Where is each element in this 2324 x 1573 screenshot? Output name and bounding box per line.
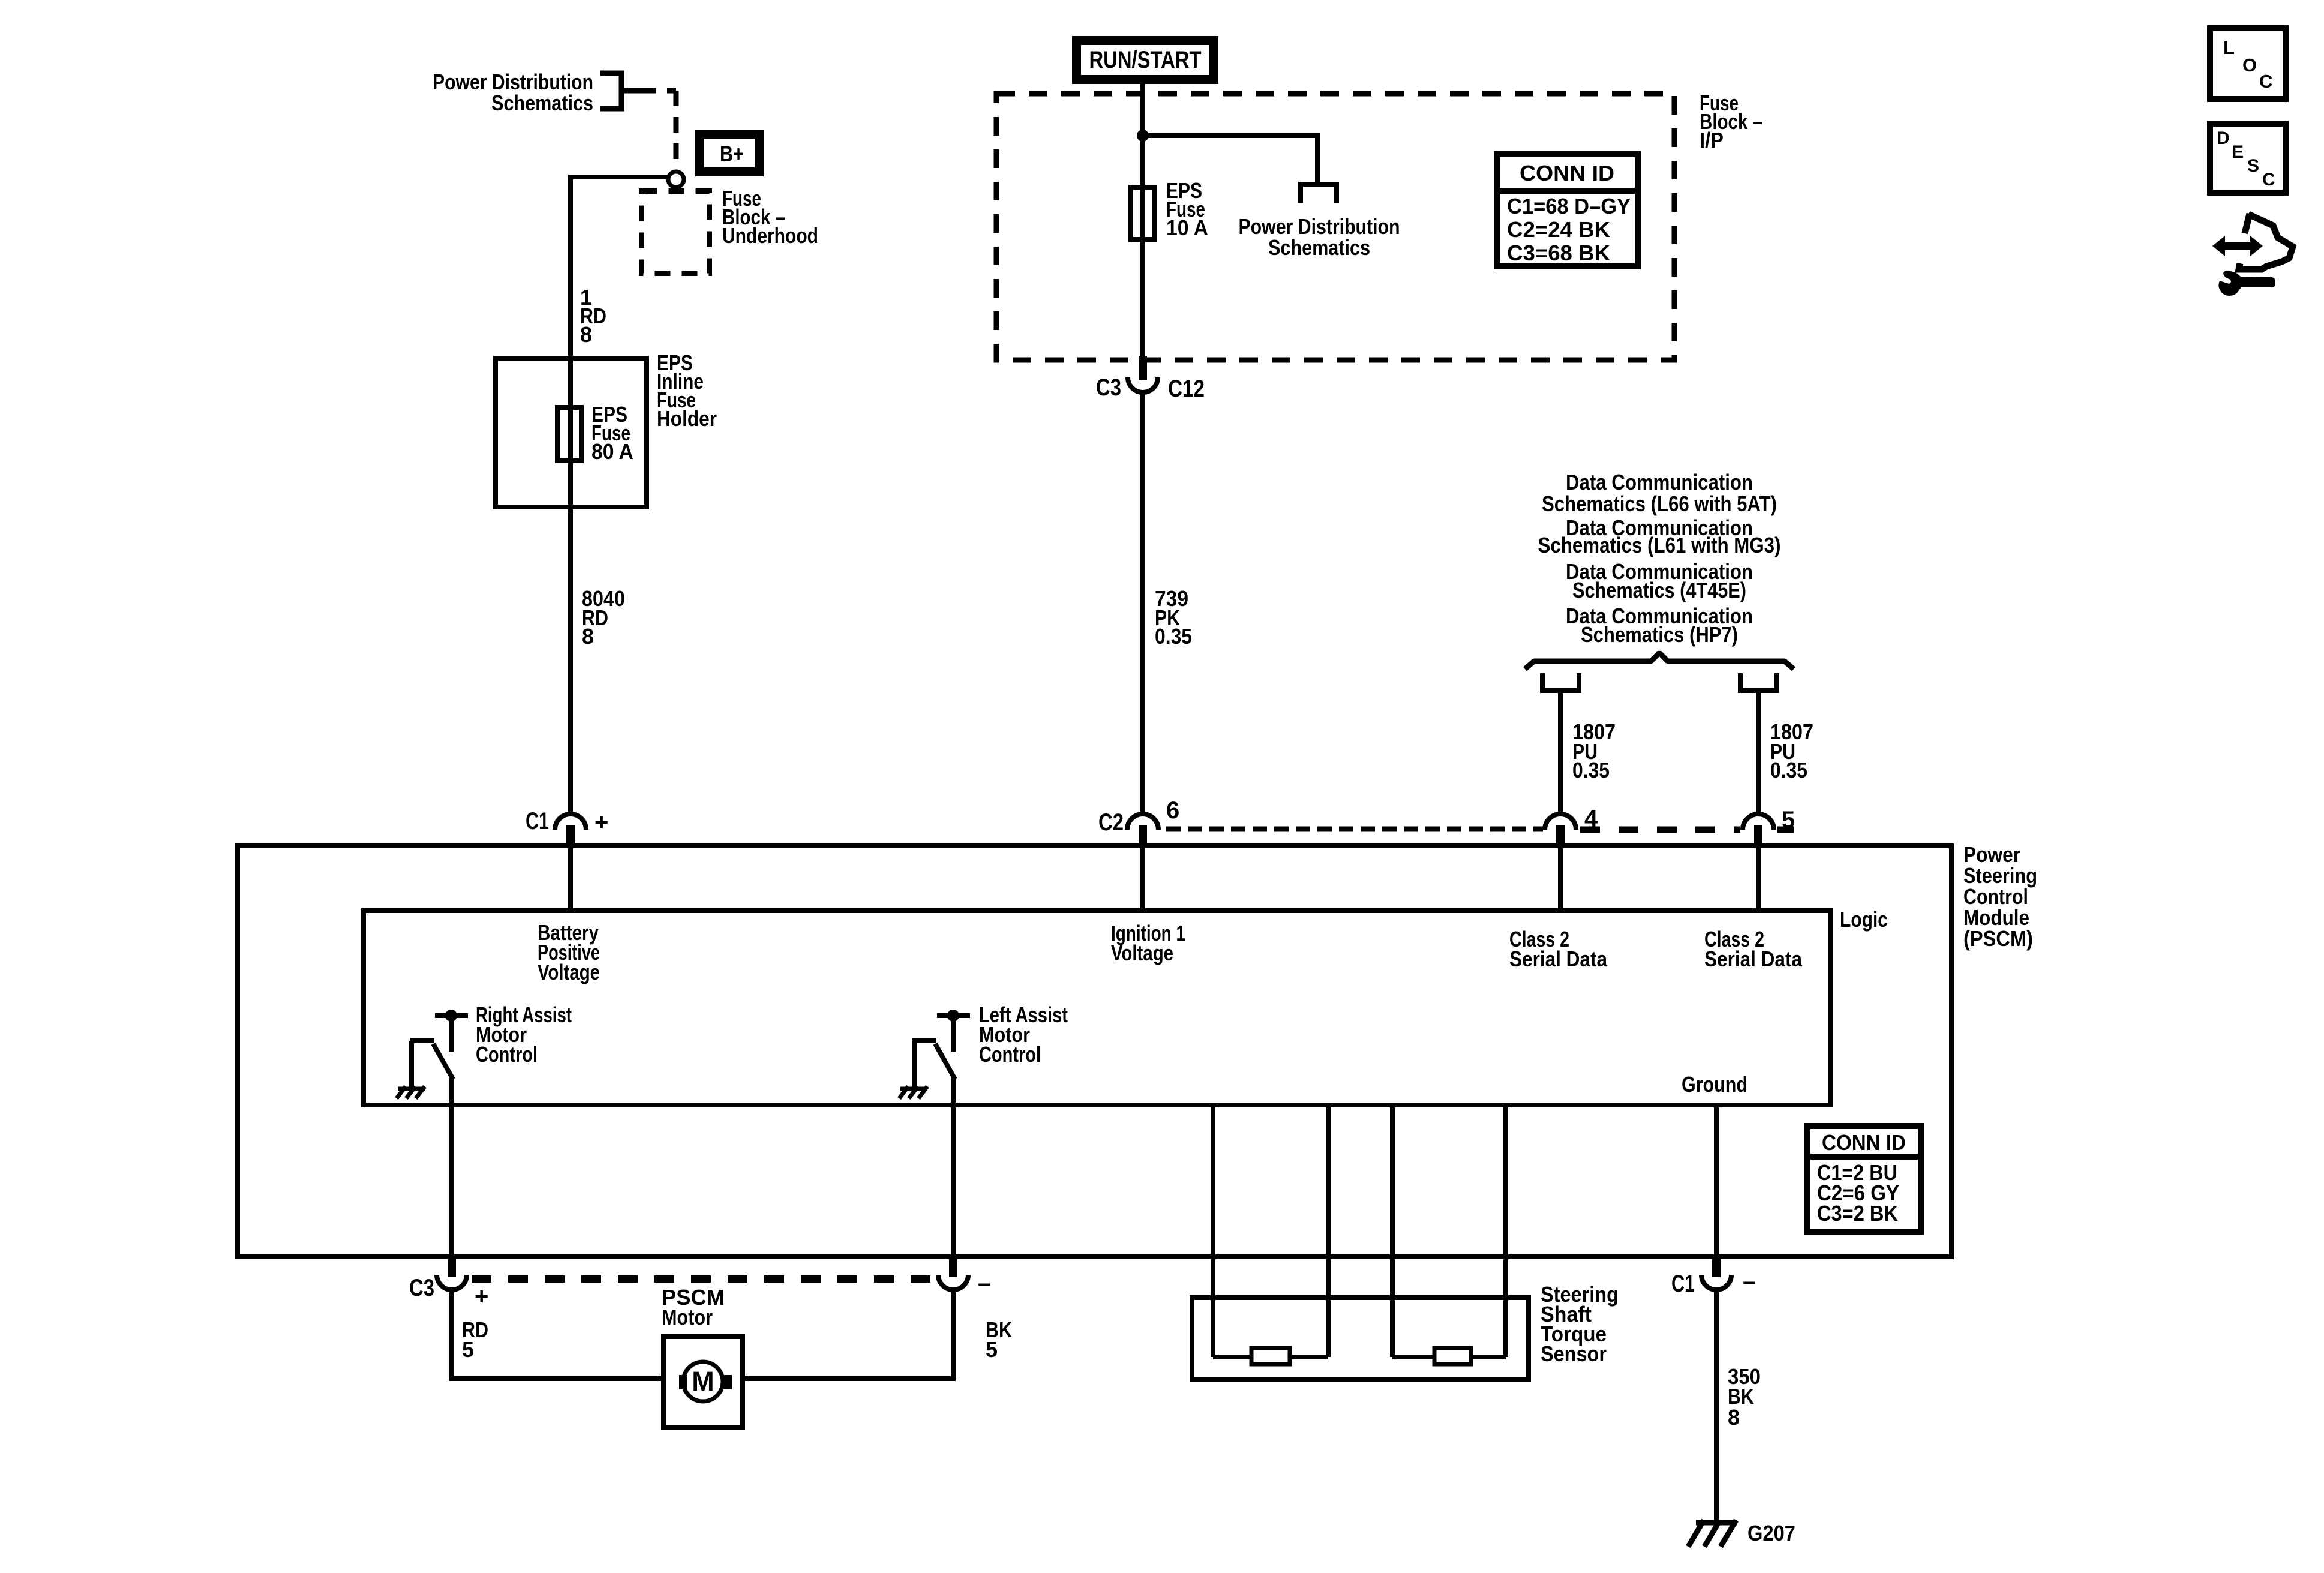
svg-text:80 A: 80 A: [591, 439, 633, 464]
svg-text:B+: B+: [720, 142, 744, 166]
svg-text:–: –: [1743, 1268, 1756, 1295]
svg-text:L: L: [2223, 37, 2235, 58]
svg-text:10 A: 10 A: [1166, 215, 1208, 240]
svg-text:Schematics: Schematics: [491, 91, 593, 115]
svg-text:C1: C1: [1671, 1271, 1695, 1297]
svg-text:8: 8: [1728, 1405, 1740, 1430]
svg-text:E: E: [2232, 142, 2244, 162]
svg-text:Voltage: Voltage: [538, 960, 600, 984]
svg-text:Motor: Motor: [662, 1305, 713, 1329]
svg-text:Underhood: Underhood: [722, 223, 818, 248]
svg-text:Serial Data: Serial Data: [1704, 947, 1803, 971]
svg-text:C12: C12: [1168, 376, 1205, 402]
svg-text:C1: C1: [526, 808, 549, 834]
svg-text:0.35: 0.35: [1770, 758, 1807, 782]
svg-text:Schematics (HP7): Schematics (HP7): [1581, 622, 1738, 647]
svg-text:I/P: I/P: [1700, 128, 1724, 152]
svg-text:Schematics: Schematics: [1268, 235, 1370, 260]
svg-text:5: 5: [986, 1337, 998, 1362]
svg-text:0.35: 0.35: [1155, 624, 1192, 649]
svg-text:Control: Control: [979, 1042, 1041, 1067]
svg-text:M: M: [692, 1366, 714, 1397]
svg-text:+: +: [475, 1283, 488, 1310]
svg-text:Schematics (L61 with MG3): Schematics (L61 with MG3): [1538, 533, 1781, 557]
svg-text:Sensor: Sensor: [1541, 1341, 1607, 1366]
svg-text:C3: C3: [1096, 374, 1121, 401]
svg-text:Holder: Holder: [657, 406, 717, 431]
svg-text:Data Communication: Data Communication: [1566, 470, 1753, 494]
svg-text:Schematics (L66 with 5AT): Schematics (L66 with 5AT): [1542, 491, 1777, 516]
svg-text:G207: G207: [1747, 1521, 1795, 1545]
svg-text:D: D: [2217, 128, 2230, 148]
svg-text:C2: C2: [1098, 809, 1124, 836]
svg-text:C1=68 D–GY: C1=68 D–GY: [1507, 194, 1631, 218]
svg-text:0.35: 0.35: [1572, 758, 1610, 782]
svg-text:O: O: [2242, 55, 2257, 76]
svg-text:8: 8: [582, 624, 594, 649]
svg-text:5: 5: [1782, 807, 1795, 833]
svg-text:Ground: Ground: [1682, 1072, 1747, 1097]
svg-text:Logic: Logic: [1840, 907, 1888, 932]
svg-text:6: 6: [1166, 797, 1179, 824]
svg-text:C2=24 BK: C2=24 BK: [1507, 217, 1610, 242]
svg-text:CONN ID: CONN ID: [1520, 161, 1614, 185]
svg-text:Schematics (4T45E): Schematics (4T45E): [1572, 578, 1746, 602]
svg-text:8: 8: [580, 322, 592, 347]
svg-text:CONN ID: CONN ID: [1822, 1130, 1906, 1155]
svg-text:(PSCM): (PSCM): [1963, 926, 2033, 951]
svg-text:–: –: [978, 1270, 991, 1296]
svg-text:RUN/START: RUN/START: [1089, 47, 1202, 73]
svg-text:C: C: [2259, 71, 2272, 92]
svg-text:5: 5: [462, 1337, 474, 1362]
svg-text:C3: C3: [409, 1275, 434, 1301]
svg-text:4: 4: [1584, 806, 1598, 832]
svg-text:Serial Data: Serial Data: [1509, 947, 1608, 971]
svg-text:C3=2 BK: C3=2 BK: [1817, 1201, 1898, 1226]
svg-text:+: +: [594, 809, 608, 836]
svg-text:C3=68 BK: C3=68 BK: [1507, 241, 1610, 265]
svg-text:Control: Control: [476, 1042, 538, 1067]
svg-text:Voltage: Voltage: [1111, 941, 1173, 965]
svg-text:C: C: [2262, 170, 2275, 190]
svg-text:S: S: [2247, 156, 2259, 176]
